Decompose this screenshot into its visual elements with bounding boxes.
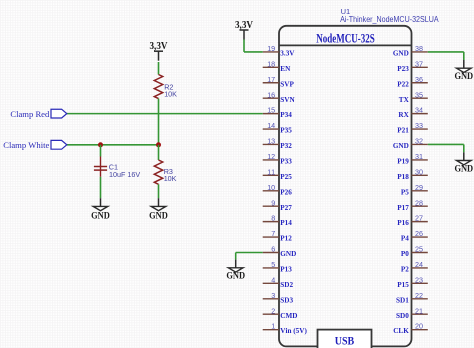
svg-text:P5: P5 — [401, 188, 409, 196]
svg-text:RX: RX — [398, 111, 409, 119]
svg-text:10: 10 — [267, 183, 275, 192]
svg-text:33: 33 — [415, 121, 423, 130]
svg-text:37: 37 — [415, 59, 423, 68]
svg-text:Clamp White: Clamp White — [3, 140, 49, 150]
svg-text:22: 22 — [415, 291, 423, 300]
svg-text:3.3V: 3.3V — [280, 50, 295, 58]
svg-text:P22: P22 — [397, 80, 409, 88]
svg-text:GND: GND — [393, 50, 409, 58]
svg-text:GND: GND — [454, 72, 473, 82]
svg-text:P21: P21 — [397, 127, 409, 135]
svg-text:GND: GND — [226, 272, 245, 282]
svg-text:2: 2 — [271, 306, 275, 315]
svg-text:SD3: SD3 — [280, 296, 293, 304]
svg-text:SD1: SD1 — [396, 296, 409, 304]
svg-text:P18: P18 — [397, 173, 409, 181]
svg-text:3: 3 — [271, 291, 275, 300]
svg-text:32: 32 — [415, 137, 423, 146]
svg-text:P4: P4 — [401, 235, 409, 243]
svg-text:28: 28 — [415, 198, 423, 207]
svg-text:8: 8 — [271, 214, 275, 223]
svg-text:5: 5 — [271, 260, 275, 269]
svg-text:10K: 10K — [164, 90, 177, 99]
svg-text:7: 7 — [271, 229, 275, 238]
svg-text:24: 24 — [415, 260, 423, 269]
svg-text:26: 26 — [415, 229, 423, 238]
svg-text:10uF 16V: 10uF 16V — [109, 170, 140, 179]
svg-text:EN: EN — [280, 65, 291, 73]
svg-text:P33: P33 — [280, 158, 292, 166]
svg-text:19: 19 — [267, 44, 275, 53]
svg-text:18: 18 — [267, 59, 275, 68]
svg-text:30: 30 — [415, 167, 423, 176]
svg-text:P34: P34 — [280, 111, 292, 119]
svg-text:3,3V: 3,3V — [150, 41, 169, 52]
svg-text:GND: GND — [393, 142, 409, 150]
svg-text:P19: P19 — [397, 158, 409, 166]
svg-text:P17: P17 — [397, 204, 409, 212]
svg-text:P16: P16 — [397, 219, 409, 227]
svg-text:GND: GND — [280, 250, 296, 258]
svg-text:35: 35 — [415, 90, 423, 99]
svg-text:CLK: CLK — [393, 327, 409, 335]
svg-text:27: 27 — [415, 214, 423, 223]
svg-text:Vin (5V): Vin (5V) — [280, 327, 307, 335]
svg-text:NodeMCU-32S: NodeMCU-32S — [316, 31, 375, 46]
svg-text:20: 20 — [415, 322, 423, 331]
svg-text:TX: TX — [399, 96, 410, 104]
svg-text:15: 15 — [267, 106, 275, 115]
svg-text:GND: GND — [454, 164, 473, 174]
svg-text:1: 1 — [271, 322, 275, 331]
svg-text:P12: P12 — [280, 235, 292, 243]
svg-text:P14: P14 — [280, 219, 292, 227]
svg-text:GND: GND — [149, 211, 168, 221]
svg-text:CMD: CMD — [280, 312, 297, 320]
svg-text:13: 13 — [267, 137, 275, 146]
svg-text:SD0: SD0 — [396, 312, 409, 320]
svg-text:12: 12 — [267, 152, 275, 161]
svg-text:23: 23 — [415, 275, 423, 284]
svg-text:14: 14 — [267, 121, 275, 130]
svg-text:SD2: SD2 — [280, 281, 293, 289]
svg-text:25: 25 — [415, 245, 423, 254]
svg-text:USB: USB — [335, 335, 355, 347]
svg-text:11: 11 — [267, 167, 275, 176]
svg-text:P15: P15 — [397, 281, 409, 289]
svg-text:6: 6 — [271, 245, 275, 254]
svg-text:P25: P25 — [280, 173, 292, 181]
svg-text:P23: P23 — [397, 65, 409, 73]
svg-text:Ai-Thinker_NodeMCU-32SLUA: Ai-Thinker_NodeMCU-32SLUA — [340, 15, 439, 24]
svg-text:P32: P32 — [280, 142, 292, 150]
svg-text:SVP: SVP — [280, 80, 294, 88]
svg-text:P13: P13 — [280, 266, 292, 274]
svg-text:P27: P27 — [280, 204, 292, 212]
svg-text:P0: P0 — [401, 250, 409, 258]
svg-text:P35: P35 — [280, 127, 292, 135]
svg-text:16: 16 — [267, 90, 275, 99]
svg-text:29: 29 — [415, 183, 423, 192]
svg-text:SVN: SVN — [280, 96, 295, 104]
svg-text:31: 31 — [415, 152, 423, 161]
svg-text:38: 38 — [415, 44, 423, 53]
svg-text:36: 36 — [415, 75, 423, 84]
svg-text:9: 9 — [271, 198, 275, 207]
svg-text:10K: 10K — [164, 174, 177, 183]
svg-text:GND: GND — [91, 211, 110, 221]
svg-text:Clamp Red: Clamp Red — [10, 109, 50, 119]
svg-text:21: 21 — [415, 306, 423, 315]
svg-text:4: 4 — [271, 275, 275, 284]
svg-text:P26: P26 — [280, 188, 292, 196]
svg-text:17: 17 — [267, 75, 275, 84]
svg-text:P2: P2 — [401, 266, 409, 274]
svg-text:34: 34 — [415, 106, 423, 115]
